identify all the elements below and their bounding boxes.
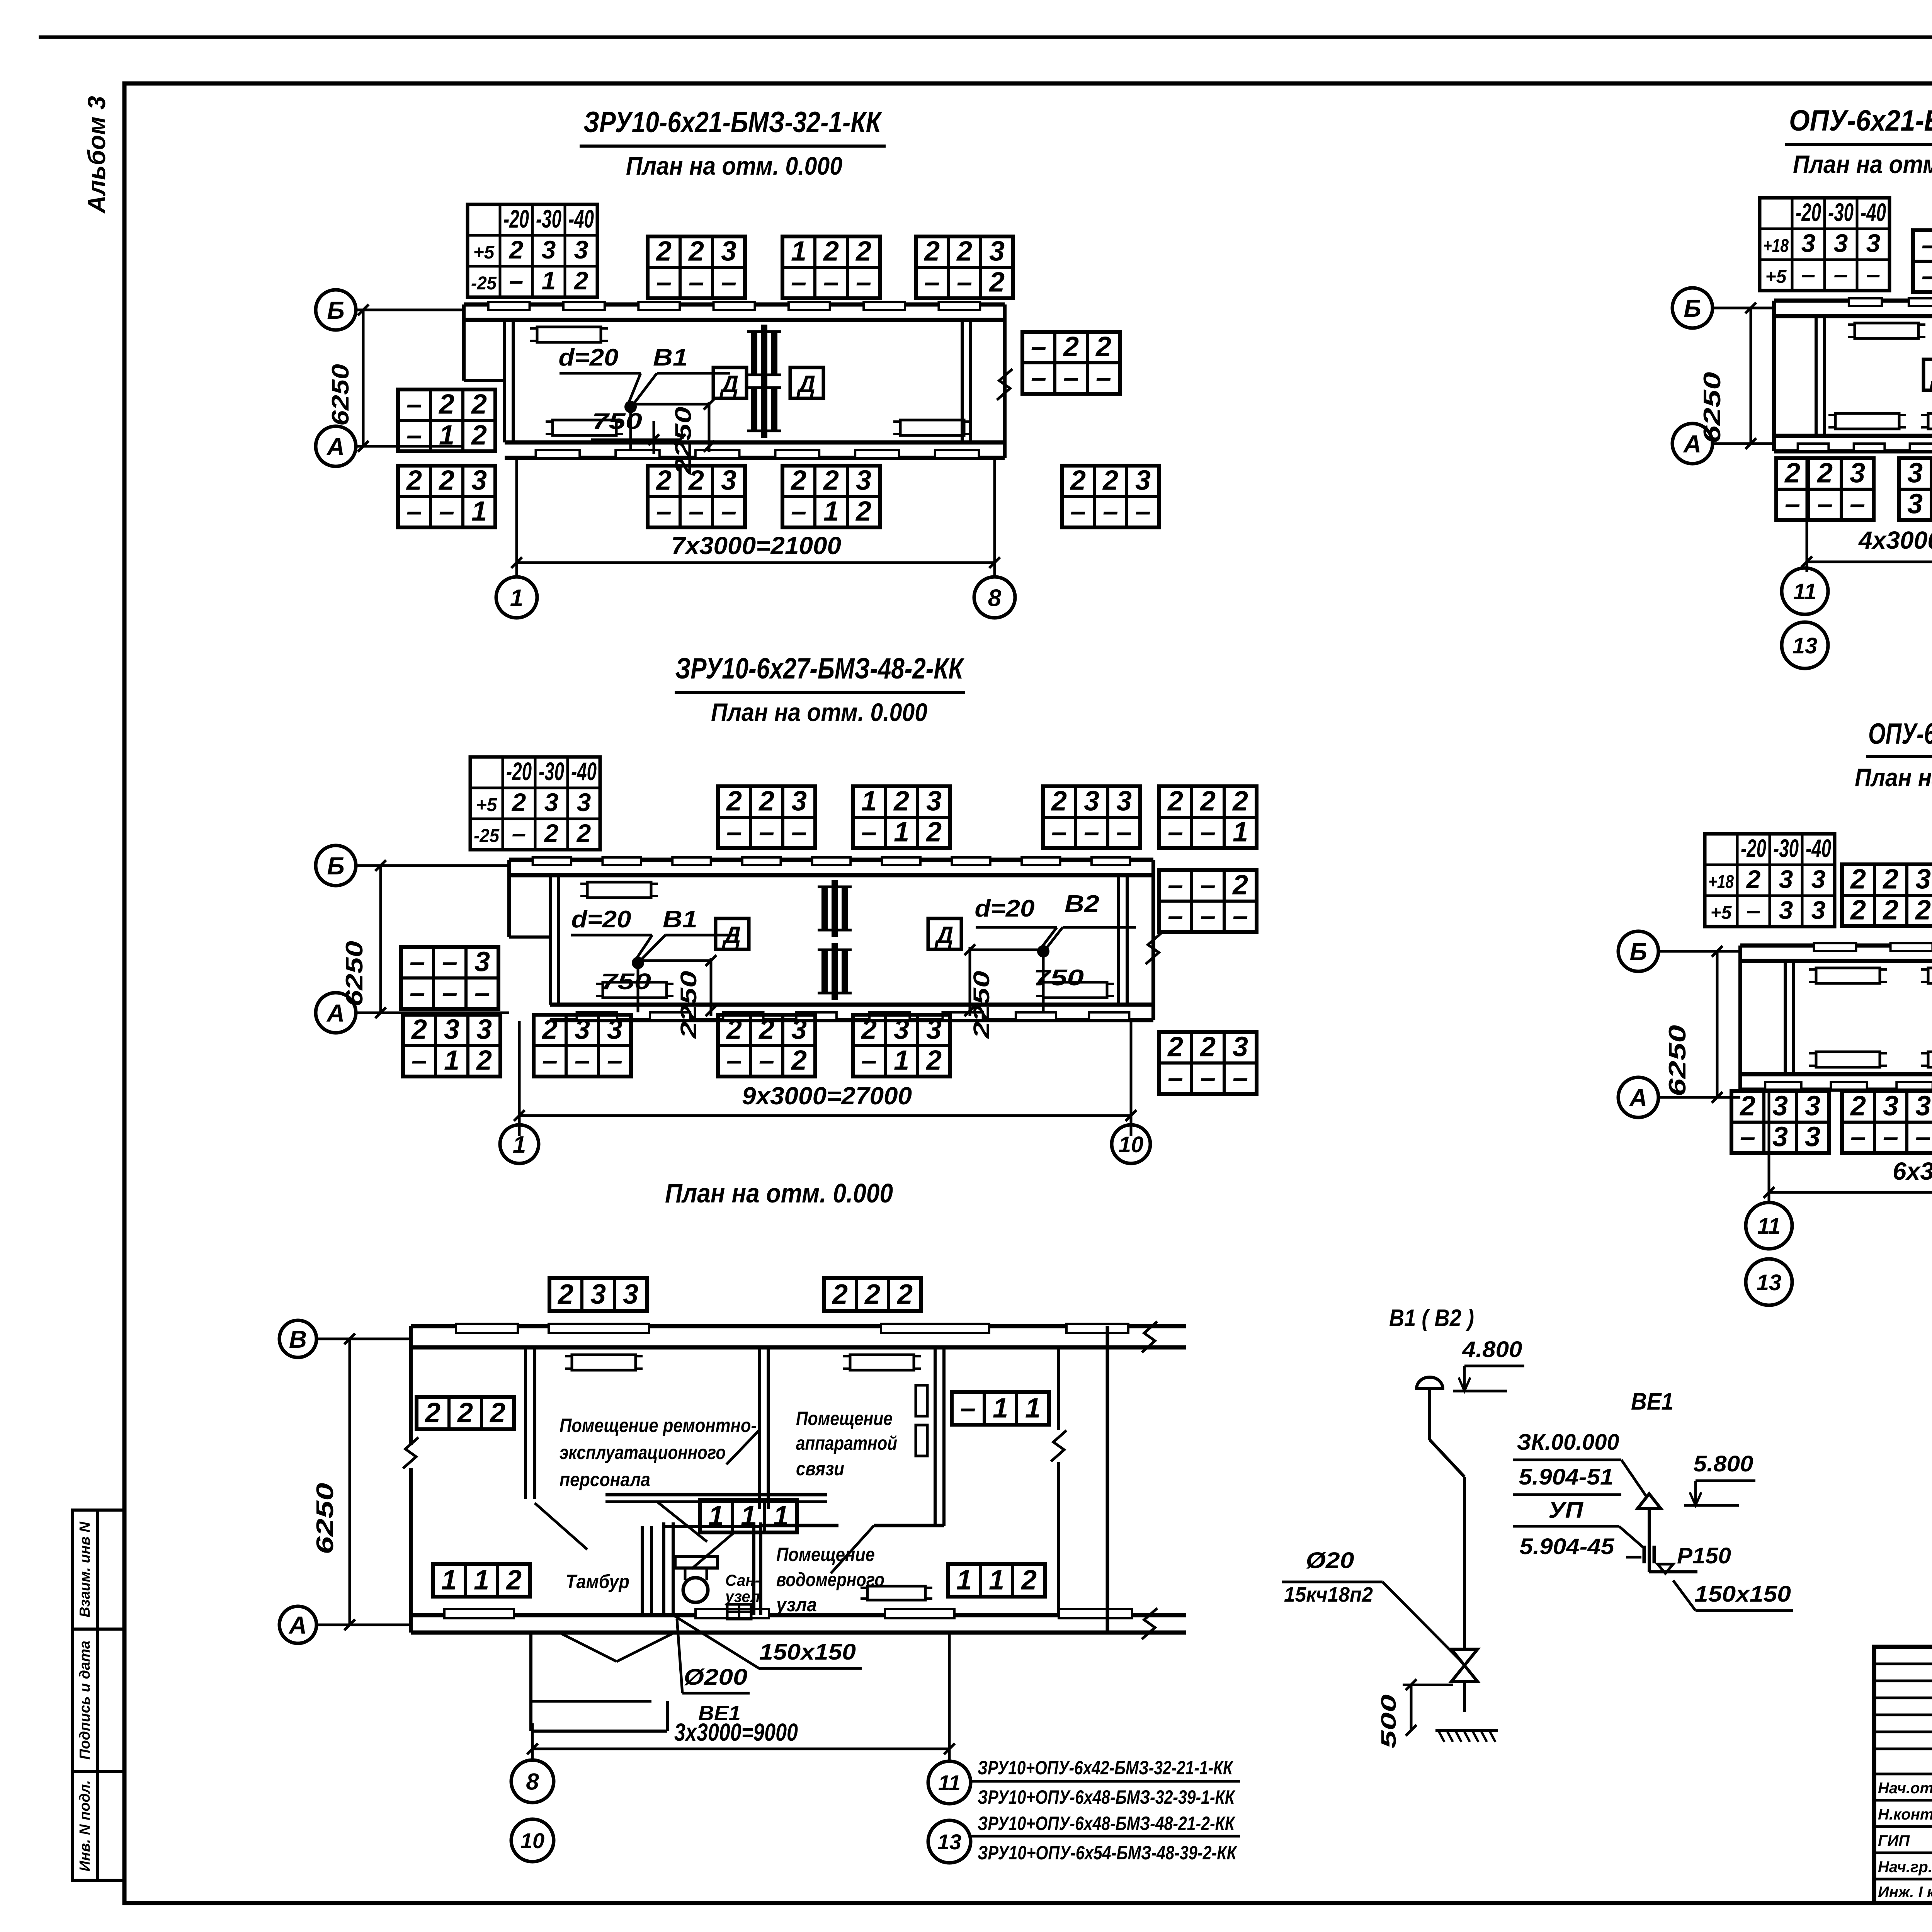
svg-text:1: 1 — [1233, 816, 1248, 847]
svg-text:+5: +5 — [476, 795, 498, 815]
partition — [1784, 961, 1787, 1074]
svg-text:Б: Б — [327, 852, 344, 880]
svg-text:3: 3 — [544, 788, 559, 816]
svg-text:1: 1 — [441, 1565, 457, 1596]
plan5 porch — [529, 1633, 532, 1731]
svg-text:3: 3 — [542, 235, 556, 264]
svg-text:В1 ( В2 ): В1 ( В2 ) — [1389, 1305, 1474, 1332]
plan4 dim 6250 — [1716, 951, 1719, 1097]
svg-text:1: 1 — [989, 1565, 1004, 1596]
svg-text:11: 11 — [1793, 579, 1816, 604]
plan4 axis number circles — [1746, 1202, 1792, 1249]
svg-text:–: – — [607, 1045, 622, 1076]
svg-text:3: 3 — [444, 1014, 459, 1045]
wall top — [1740, 944, 1932, 948]
svg-text:3: 3 — [471, 465, 487, 496]
plan1 D boxes — [713, 367, 747, 398]
toilet — [675, 1556, 718, 1568]
svg-text:3: 3 — [1801, 229, 1816, 257]
sink — [727, 1604, 751, 1619]
svg-text:-30: -30 — [1828, 198, 1854, 226]
svg-text:аппаратной: аппаратной — [796, 1432, 897, 1454]
plan5 section cut line — [1057, 1347, 1060, 1430]
svg-text:–: – — [1922, 230, 1932, 260]
svg-text:–: – — [474, 977, 490, 1008]
svg-text:6250: 6250 — [1699, 372, 1726, 444]
plan2 axis circles — [316, 845, 356, 886]
svg-text:Помещение: Помещение — [776, 1544, 875, 1565]
plan2 tables above — [718, 786, 815, 848]
svg-text:3: 3 — [1779, 896, 1793, 924]
svg-text:Инв. N подл.: Инв. N подл. — [77, 1780, 93, 1871]
svg-text:–: – — [759, 1045, 774, 1076]
svg-text:3: 3 — [1084, 786, 1099, 816]
svg-text:2: 2 — [823, 465, 839, 496]
svg-text:2: 2 — [1816, 457, 1833, 488]
svg-text:–: – — [1168, 816, 1183, 847]
svg-text:1: 1 — [791, 236, 806, 267]
svg-text:А: А — [1683, 430, 1701, 458]
svg-text:План на отм. 0.000: План на отм. 0.000 — [711, 698, 927, 726]
svg-text:2: 2 — [411, 1014, 427, 1045]
svg-text:–: – — [1116, 816, 1132, 847]
svg-text:13: 13 — [1757, 1270, 1782, 1295]
svg-text:2250: 2250 — [676, 971, 701, 1039]
svg-text:6х3000=18000: 6х3000=18000 — [1893, 1157, 1932, 1185]
column marks — [821, 887, 828, 930]
svg-text:3: 3 — [1907, 457, 1923, 488]
svg-text:–: – — [856, 267, 871, 298]
svg-text:–: – — [1200, 816, 1216, 847]
svg-text:–: – — [406, 389, 422, 420]
svg-text:6250: 6250 — [327, 364, 354, 426]
svg-text:–: – — [1103, 496, 1118, 527]
svg-text:–: – — [1801, 260, 1816, 288]
svg-text:А: А — [1629, 1084, 1647, 1112]
svg-text:-25: -25 — [471, 273, 497, 294]
svg-text:2: 2 — [457, 1398, 473, 1429]
svg-text:3: 3 — [894, 1014, 909, 1045]
svg-text:–: – — [656, 267, 672, 298]
svg-text:3: 3 — [476, 1014, 492, 1045]
svg-text:Ø200: Ø200 — [684, 1665, 748, 1690]
VE1 damper — [1643, 1546, 1646, 1563]
vent V1 ground — [1435, 1729, 1498, 1732]
title block outline — [1874, 1647, 1932, 1903]
svg-text:3: 3 — [574, 235, 588, 264]
plan5 right wall line — [1106, 1326, 1109, 1633]
plan1 axis number circles — [496, 577, 537, 618]
plan5 water room wall — [761, 1524, 838, 1527]
svg-text:2: 2 — [544, 819, 559, 847]
svg-text:2: 2 — [864, 1279, 880, 1310]
svg-text:1: 1 — [444, 1045, 459, 1076]
svg-text:–: – — [1233, 900, 1248, 931]
partition — [961, 320, 964, 442]
svg-text:3: 3 — [1866, 229, 1881, 257]
svg-text:3: 3 — [1883, 1090, 1898, 1121]
plan3 dim 6250 — [1750, 308, 1752, 444]
svg-text:ЗРУ10+ОПУ-6х42-БМЗ-32-21-1-КК: ЗРУ10+ОПУ-6х42-БМЗ-32-21-1-КК — [978, 1757, 1234, 1779]
plan4 bottom tables — [1731, 1091, 1829, 1153]
plan3 axis number circles — [1782, 568, 1828, 614]
svg-text:2: 2 — [1199, 786, 1216, 816]
svg-text:3: 3 — [1811, 865, 1826, 893]
svg-text:–: – — [1200, 869, 1216, 900]
svg-text:+18: +18 — [1708, 872, 1734, 892]
svg-text:2: 2 — [925, 1045, 942, 1076]
svg-text:водомерного: водомерного — [776, 1569, 884, 1590]
svg-text:2: 2 — [1850, 895, 1866, 925]
svg-text:6250: 6250 — [312, 1483, 338, 1554]
vent V1 dim 500 — [1410, 1685, 1413, 1730]
svg-text:3: 3 — [989, 236, 1005, 267]
svg-text:–: – — [1135, 496, 1151, 527]
svg-text:–: – — [575, 1045, 590, 1076]
svg-text:-20: -20 — [503, 204, 529, 233]
svg-text:Тамбур: Тамбур — [566, 1571, 629, 1592]
svg-text:2: 2 — [1095, 331, 1111, 362]
svg-text:–: – — [791, 267, 806, 298]
svg-text:5.904-51: 5.904-51 — [1519, 1464, 1614, 1490]
wall right — [1003, 304, 1007, 458]
svg-text:9х3000=27000: 9х3000=27000 — [742, 1082, 912, 1110]
svg-text:2: 2 — [1784, 457, 1800, 488]
svg-text:3: 3 — [1850, 457, 1865, 488]
svg-text:2: 2 — [471, 420, 487, 451]
svg-text:1: 1 — [956, 1565, 972, 1596]
svg-text:–: – — [1168, 1062, 1183, 1093]
svg-text:Инж. I кат.: Инж. I кат. — [1878, 1884, 1932, 1901]
plan5 table 111 — [700, 1500, 797, 1532]
svg-text:–: – — [1922, 260, 1932, 291]
svg-text:2: 2 — [438, 389, 454, 420]
svg-text:ЗРУ10-6х21-БМЗ-32-1-КК: ЗРУ10-6х21-БМЗ-32-1-КК — [583, 106, 883, 139]
svg-text:–: – — [689, 496, 704, 527]
wall bottom — [550, 1003, 1153, 1007]
plan5 wall top — [411, 1324, 1186, 1328]
plan3 bottom tables — [1776, 458, 1874, 520]
svg-text:3: 3 — [1915, 864, 1931, 895]
svg-text:5.904-45: 5.904-45 — [1520, 1534, 1615, 1559]
svg-text:1: 1 — [439, 420, 454, 451]
svg-text:–: – — [721, 267, 736, 298]
svg-text:2: 2 — [1850, 1090, 1866, 1121]
svg-text:4х3000=12000: 4х3000=12000 — [1858, 526, 1932, 554]
plan1 tables above — [648, 236, 745, 298]
svg-text:3: 3 — [791, 1014, 807, 1045]
svg-text:3: 3 — [1805, 1121, 1820, 1152]
svg-text:2: 2 — [1051, 786, 1067, 816]
svg-text:эксплуатационного: эксплуатационного — [560, 1442, 726, 1463]
svg-text:2: 2 — [1167, 1031, 1183, 1062]
svg-text:–: – — [1233, 1062, 1248, 1093]
svg-text:персонала: персонала — [560, 1469, 650, 1490]
svg-text:–: – — [442, 946, 457, 977]
svg-text:Б: Б — [1684, 294, 1701, 322]
svg-text:В: В — [289, 1325, 307, 1353]
svg-text:2: 2 — [855, 236, 871, 267]
svg-text:2: 2 — [923, 236, 940, 267]
svg-text:3: 3 — [721, 236, 736, 267]
plan1 axis circles — [316, 290, 356, 330]
svg-text:1: 1 — [773, 1501, 789, 1532]
svg-text:–: – — [406, 420, 422, 451]
svg-text:–: – — [1084, 816, 1099, 847]
svg-text:2: 2 — [1020, 1565, 1037, 1596]
svg-text:ВЕ1: ВЕ1 — [1631, 1388, 1673, 1415]
plan5 wall left — [409, 1326, 413, 1445]
svg-text:3: 3 — [926, 786, 942, 816]
svg-text:Помещение: Помещение — [796, 1408, 893, 1429]
svg-text:План на отм. 0.000: План на отм. 0.000 — [626, 151, 842, 180]
svg-text:+5: +5 — [473, 242, 495, 263]
svg-text:План на отм. 0.000: План на отм. 0.000 — [665, 1178, 893, 1208]
left attribute boxes — [73, 1510, 97, 1629]
wall top — [509, 858, 1153, 862]
svg-text:2: 2 — [471, 389, 487, 420]
svg-text:2: 2 — [726, 786, 742, 816]
svg-text:1: 1 — [894, 816, 909, 847]
wall left — [462, 304, 466, 381]
svg-text:2: 2 — [1070, 465, 1086, 496]
svg-text:Д: Д — [796, 371, 816, 398]
svg-text:3: 3 — [1233, 1031, 1248, 1062]
svg-text:1: 1 — [894, 1045, 909, 1076]
svg-text:+18: +18 — [1763, 236, 1789, 256]
svg-text:–: – — [791, 496, 806, 527]
plan2 side tables — [401, 947, 498, 1009]
svg-text:1: 1 — [542, 266, 556, 295]
svg-text:2: 2 — [688, 236, 704, 267]
svg-text:3: 3 — [607, 1014, 622, 1045]
svg-text:13: 13 — [937, 1830, 961, 1854]
svg-text:750: 750 — [601, 969, 651, 994]
svg-text:1: 1 — [1025, 1393, 1041, 1424]
svg-text:3: 3 — [474, 946, 490, 977]
plan2 dim 6250 — [379, 866, 382, 1013]
svg-text:2: 2 — [1882, 895, 1898, 925]
svg-text:–: – — [1740, 1121, 1755, 1152]
svg-text:-40: -40 — [568, 204, 594, 233]
svg-text:–: – — [1031, 362, 1046, 393]
plan1 side tables — [398, 389, 495, 451]
svg-text:–: – — [1915, 1121, 1931, 1152]
svg-text:План на отм. 0.000: План на отм. 0.000 — [1793, 150, 1932, 179]
svg-text:ЗРУ10+ОПУ-6х48-БМЗ-32-39-1-КК: ЗРУ10+ОПУ-6х48-БМЗ-32-39-1-КК — [978, 1786, 1236, 1808]
plan5 sanitary unit — [641, 1526, 644, 1615]
svg-text:–: – — [1883, 1121, 1898, 1152]
svg-text:ЗРУ10+ОПУ-6х54-БМЗ-48-39-2-КК: ЗРУ10+ОПУ-6х54-БМЗ-48-39-2-КК — [978, 1842, 1238, 1864]
svg-text:–: – — [1785, 488, 1800, 519]
svg-text:2: 2 — [1882, 864, 1898, 895]
svg-text:–: – — [1850, 1121, 1866, 1152]
svg-text:ЗК.00.000: ЗК.00.000 — [1517, 1430, 1619, 1455]
plan5 dim 6250 — [349, 1339, 351, 1625]
svg-text:3: 3 — [791, 786, 807, 816]
wall left — [1772, 301, 1776, 451]
svg-text:2: 2 — [511, 788, 526, 816]
plan4 axis circles — [1618, 931, 1658, 971]
plan4 tables above — [1842, 864, 1932, 926]
svg-text:ЗРУ10-6х27-БМЗ-48-2-КК: ЗРУ10-6х27-БМЗ-48-2-КК — [675, 652, 965, 685]
svg-text:–: – — [442, 977, 457, 1008]
plan5 axis number circles — [511, 1760, 554, 1803]
svg-text:8: 8 — [988, 585, 1002, 611]
svg-text:2: 2 — [655, 465, 672, 496]
svg-text:1: 1 — [861, 786, 877, 816]
svg-text:1: 1 — [510, 585, 523, 611]
svg-text:2: 2 — [576, 819, 591, 847]
svg-text:Альбом 3: Альбом 3 — [83, 96, 111, 214]
svg-text:2: 2 — [438, 465, 454, 496]
svg-text:–: – — [721, 496, 736, 527]
plan5 wall bottom — [411, 1613, 1186, 1617]
svg-text:–: – — [512, 819, 526, 847]
svg-text:2: 2 — [791, 1045, 807, 1076]
plan5 partition right — [934, 1347, 937, 1526]
svg-text:–: – — [1051, 816, 1067, 847]
plan5 entry door V — [561, 1634, 617, 1662]
svg-text:Нач.отд.: Нач.отд. — [1878, 1780, 1932, 1797]
plan5 tables above — [549, 1278, 647, 1311]
svg-text:2: 2 — [1915, 895, 1931, 925]
svg-text:2: 2 — [1199, 1031, 1216, 1062]
wall top — [464, 303, 1005, 307]
column marks — [751, 332, 757, 375]
svg-text:–: – — [439, 496, 454, 527]
svg-text:2: 2 — [925, 816, 942, 847]
svg-text:Д: Д — [719, 371, 739, 398]
outer top border — [39, 36, 1932, 39]
svg-text:связи: связи — [796, 1458, 844, 1480]
svg-text:4.800: 4.800 — [1462, 1337, 1522, 1362]
svg-text:УП: УП — [1548, 1498, 1583, 1523]
svg-text:–: – — [791, 816, 807, 847]
svg-text:3: 3 — [575, 1014, 590, 1045]
svg-text:3: 3 — [1805, 1090, 1820, 1121]
svg-text:–: – — [957, 267, 972, 298]
svg-text:2: 2 — [557, 1279, 573, 1310]
svg-text:-40: -40 — [571, 757, 597, 786]
plan5 axis circles — [279, 1320, 316, 1357]
svg-text:–: – — [726, 1045, 742, 1076]
plan5 shelf line — [605, 1493, 827, 1497]
wall bottom — [1774, 434, 1932, 438]
svg-text:3: 3 — [721, 465, 736, 496]
svg-text:–: – — [410, 946, 425, 977]
plan5 door diagonals — [657, 1502, 707, 1542]
svg-text:-30: -30 — [539, 757, 564, 786]
svg-text:2: 2 — [758, 786, 774, 816]
svg-text:-30: -30 — [1773, 834, 1799, 862]
svg-text:2: 2 — [1232, 786, 1248, 816]
plan1 legend table — [468, 204, 597, 297]
vent V1 deflector cap — [1417, 1377, 1443, 1389]
svg-text:2: 2 — [509, 235, 524, 264]
svg-text:–: – — [689, 267, 704, 298]
svg-text:3: 3 — [1811, 896, 1826, 924]
svg-text:-40: -40 — [1806, 834, 1831, 862]
svg-text:5.800: 5.800 — [1694, 1451, 1753, 1476]
svg-text:Р150: Р150 — [1677, 1543, 1731, 1568]
svg-text:2: 2 — [541, 1014, 558, 1045]
svg-text:2: 2 — [1102, 465, 1118, 496]
svg-text:Подпись и дата: Подпись и дата — [77, 1641, 93, 1760]
wall right — [1151, 860, 1155, 1020]
plan5 radiators — [572, 1355, 636, 1370]
svg-text:7х3000=21000: 7х3000=21000 — [671, 532, 841, 560]
svg-text:3: 3 — [1772, 1121, 1788, 1152]
svg-text:–: – — [1063, 362, 1079, 393]
svg-text:d=20: d=20 — [571, 906, 631, 933]
svg-text:–: – — [656, 496, 672, 527]
svg-text:11: 11 — [1757, 1214, 1781, 1239]
svg-text:2: 2 — [489, 1398, 505, 1429]
svg-text:2: 2 — [655, 236, 672, 267]
svg-text:–: – — [1200, 900, 1216, 931]
svg-text:1: 1 — [474, 1565, 489, 1596]
svg-text:1: 1 — [513, 1131, 526, 1158]
svg-text:ЗРУ10+ОПУ-6х48-БМЗ-48-21-2-КК: ЗРУ10+ОПУ-6х48-БМЗ-48-21-2-КК — [978, 1813, 1236, 1834]
wall left — [507, 860, 511, 937]
svg-text:3: 3 — [1135, 465, 1151, 496]
svg-text:Д: Д — [934, 922, 954, 949]
svg-text:2: 2 — [855, 496, 871, 527]
svg-text:1: 1 — [993, 1393, 1008, 1424]
svg-text:10: 10 — [520, 1828, 544, 1853]
svg-text:3: 3 — [1116, 786, 1132, 816]
svg-text:2250: 2250 — [969, 971, 994, 1039]
svg-text:-25: -25 — [474, 826, 500, 846]
svg-text:2: 2 — [790, 465, 806, 496]
svg-text:А: А — [288, 1611, 307, 1639]
svg-text:Нач.гр.: Нач.гр. — [1878, 1859, 1932, 1876]
svg-text:3: 3 — [1834, 229, 1848, 257]
svg-text:ОПУ-6х27-БМЗ-39: ОПУ-6х27-БМЗ-39 — [1868, 718, 1932, 750]
svg-text:750: 750 — [592, 409, 642, 434]
svg-text:+5: +5 — [1765, 267, 1787, 287]
svg-text:ОПУ-6х21-БМЗ-21: ОПУ-6х21-БМЗ-21 — [1789, 104, 1932, 137]
svg-text:3: 3 — [926, 1014, 942, 1045]
svg-text:–: – — [861, 1045, 877, 1076]
svg-text:2: 2 — [1167, 786, 1183, 816]
vent V1 duct — [1428, 1389, 1431, 1440]
svg-text:3: 3 — [577, 788, 591, 816]
svg-text:1: 1 — [823, 496, 839, 527]
wall left — [1738, 946, 1742, 1090]
svg-text:–: – — [924, 267, 940, 298]
plan3 axis circles — [1672, 288, 1713, 328]
svg-text:3: 3 — [590, 1279, 606, 1310]
svg-text:13: 13 — [1793, 633, 1818, 658]
VE1 duct — [1648, 1509, 1651, 1572]
svg-text:-20: -20 — [506, 757, 532, 786]
plan5 side tables — [417, 1397, 514, 1429]
svg-text:–: – — [1200, 1062, 1216, 1093]
svg-text:3: 3 — [1772, 1090, 1788, 1121]
plan5 partition tambour — [524, 1347, 527, 1499]
svg-text:Д: Д — [722, 922, 741, 949]
svg-text:–: – — [1168, 900, 1183, 931]
svg-text:8: 8 — [526, 1769, 539, 1795]
svg-text:–: – — [1168, 869, 1183, 900]
svg-text:3: 3 — [1915, 1090, 1931, 1121]
svg-text:–: – — [1834, 260, 1848, 288]
plan3 legend table — [1760, 198, 1889, 291]
svg-text:10: 10 — [1119, 1132, 1144, 1157]
svg-text:–: – — [1866, 260, 1881, 288]
